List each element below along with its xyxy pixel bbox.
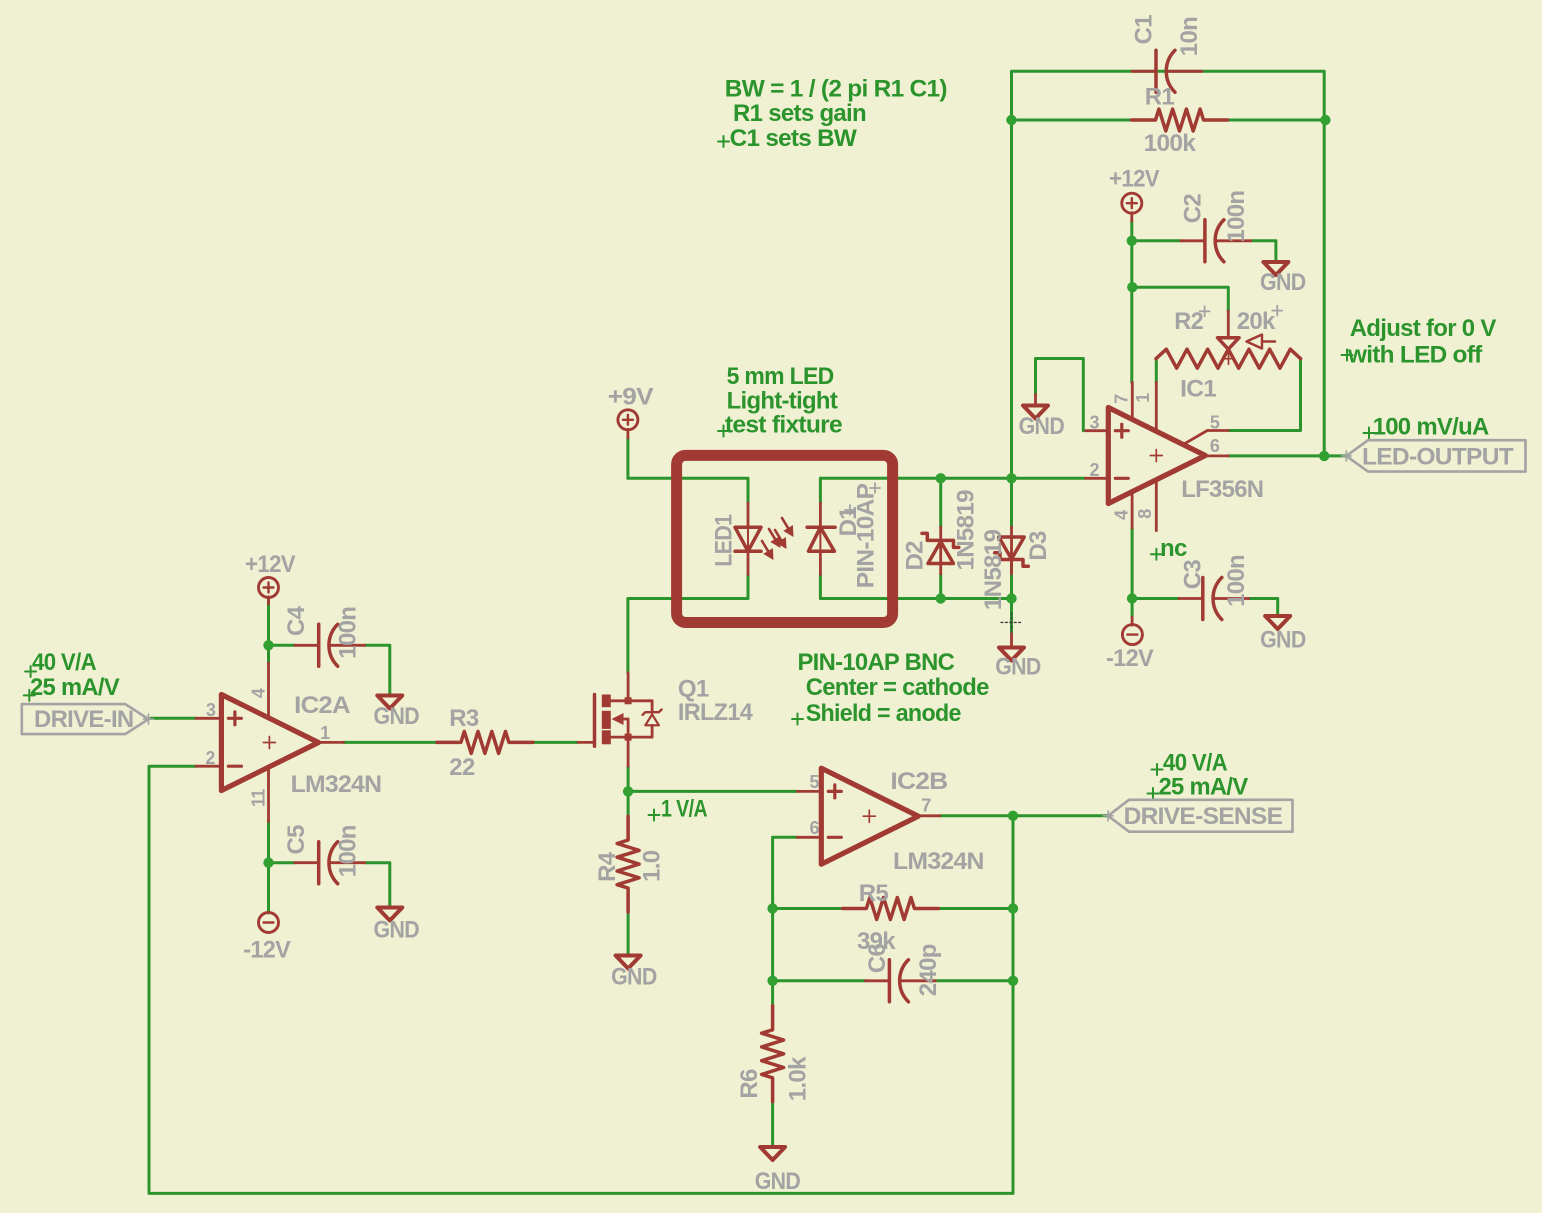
junction bbox=[767, 976, 777, 986]
junction bbox=[263, 640, 273, 650]
svg-text:+12V: +12V bbox=[1109, 165, 1160, 192]
svg-text:6: 6 bbox=[1210, 436, 1220, 456]
wire D2 top bbox=[939, 478, 942, 527]
wire C4 branch bbox=[269, 644, 295, 647]
wire R2 left to pin1 bbox=[1155, 359, 1158, 383]
op-amp IC1 bbox=[1108, 408, 1205, 504]
wire D3 gnd stub bbox=[1010, 599, 1013, 634]
svg-text:22: 22 bbox=[449, 754, 475, 781]
note origin cross bbox=[718, 136, 729, 147]
wire IC2B out bbox=[940, 814, 1108, 817]
capacitor C3 bbox=[1179, 597, 1203, 600]
ground bbox=[760, 1147, 785, 1160]
capacitor C6 bbox=[865, 979, 889, 982]
junction bbox=[263, 858, 273, 868]
svg-text:2: 2 bbox=[1089, 460, 1099, 480]
svg-text:R1: R1 bbox=[1145, 83, 1175, 110]
ground bbox=[616, 956, 641, 969]
wire IC2A pin2 feedback bbox=[149, 766, 1013, 1193]
transistor Q1 bbox=[593, 695, 597, 747]
svg-text:1N5819: 1N5819 bbox=[980, 529, 1007, 610]
svg-text:BW = 1 / (2 pi R1 C1): BW = 1 / (2 pi R1 C1) bbox=[725, 76, 947, 103]
flag DRIVE-SENSE bbox=[1108, 800, 1292, 832]
svg-text:C5: C5 bbox=[283, 825, 310, 855]
svg-text:1.0: 1.0 bbox=[639, 850, 666, 882]
wire C4 to GND bbox=[365, 645, 390, 695]
svg-text:2: 2 bbox=[205, 748, 215, 768]
wire R5 right bbox=[937, 907, 1013, 910]
svg-text:LED1: LED1 bbox=[710, 514, 737, 566]
svg-text:6: 6 bbox=[809, 818, 819, 838]
wire R1 row right bbox=[1228, 119, 1325, 122]
svg-text:Shield = anode: Shield = anode bbox=[806, 700, 961, 727]
wire D1 top bbox=[819, 478, 822, 503]
note origin cross bbox=[718, 426, 729, 437]
supply +9V bbox=[618, 410, 638, 430]
note origin cross bbox=[649, 810, 660, 821]
svg-text:-12V: -12V bbox=[243, 937, 291, 964]
wire LED cathode to Q1 drain bbox=[628, 575, 748, 673]
note origin cross bbox=[1151, 549, 1162, 560]
wire R6 to GND bbox=[771, 1102, 774, 1147]
wire C3 branch bbox=[1132, 597, 1179, 600]
svg-text:40 V/A: 40 V/A bbox=[32, 649, 96, 676]
ground bbox=[377, 696, 402, 709]
svg-text:3: 3 bbox=[1089, 413, 1099, 433]
D1 incident arrows bbox=[782, 518, 788, 528]
svg-text:Light-tight: Light-tight bbox=[727, 388, 838, 415]
resistor R4 bbox=[617, 816, 639, 912]
svg-text:5: 5 bbox=[809, 772, 819, 792]
wire +9V down bbox=[626, 438, 629, 478]
supply -12V bbox=[259, 913, 279, 933]
junction bbox=[1006, 473, 1016, 483]
svg-text:IC2A: IC2A bbox=[294, 692, 350, 719]
svg-text:GND: GND bbox=[374, 917, 420, 944]
wire C5 to GND bbox=[365, 863, 390, 908]
wire D3 bottom bbox=[1010, 558, 1013, 599]
svg-text:10n: 10n bbox=[1176, 17, 1203, 56]
supply -12V bbox=[1131, 617, 1134, 625]
junction bbox=[1127, 236, 1137, 246]
svg-text:100 mV/uA: 100 mV/uA bbox=[1373, 414, 1489, 441]
supply +12V bbox=[259, 578, 279, 598]
svg-text:7: 7 bbox=[921, 796, 931, 816]
LED1 emission arrows bbox=[769, 529, 775, 539]
capacitor C1 bbox=[1132, 70, 1156, 73]
wire D2 bottom bbox=[939, 574, 942, 599]
svg-text:D2: D2 bbox=[901, 541, 928, 571]
ground bbox=[1265, 616, 1290, 629]
note origin cross bbox=[1152, 764, 1163, 775]
wire R1 row left bbox=[1012, 119, 1132, 122]
wire D1 bottom bbox=[819, 575, 822, 599]
svg-text:C2: C2 bbox=[1179, 194, 1206, 224]
svg-text:3: 3 bbox=[206, 700, 216, 720]
svg-text:100n: 100n bbox=[335, 607, 362, 659]
svg-text:+9V: +9V bbox=[608, 384, 654, 411]
svg-text:5 mm LED: 5 mm LED bbox=[727, 363, 834, 390]
svg-text:LM324N: LM324N bbox=[291, 771, 382, 798]
svg-text:1N5819: 1N5819 bbox=[953, 490, 980, 571]
note origin cross bbox=[792, 714, 803, 725]
junction bbox=[936, 473, 946, 483]
svg-text:25 mA/V: 25 mA/V bbox=[30, 674, 120, 701]
svg-text:PIN-10AP BNC: PIN-10AP BNC bbox=[798, 649, 955, 676]
svg-text:100k: 100k bbox=[1144, 130, 1197, 157]
wire R2 right to pin5 bbox=[1228, 359, 1300, 431]
wire C3 to GND bbox=[1249, 599, 1278, 617]
diode D3 bbox=[1010, 527, 1013, 574]
svg-text:LED-OUTPUT: LED-OUTPUT bbox=[1362, 443, 1514, 470]
svg-text:C1 sets BW: C1 sets BW bbox=[730, 125, 857, 152]
resistor R5 bbox=[842, 898, 938, 920]
wire IC1 pin6 out bbox=[1228, 454, 1346, 457]
junction bbox=[623, 786, 633, 796]
svg-text:5: 5 bbox=[1210, 413, 1220, 433]
wire DRIVE-IN to pin3 bbox=[151, 717, 196, 720]
junction bbox=[1320, 115, 1330, 125]
op-amp IC2B bbox=[821, 768, 918, 864]
svg-text:GND: GND bbox=[1260, 626, 1306, 653]
svg-text:100n: 100n bbox=[1223, 191, 1250, 243]
ground bbox=[1034, 385, 1037, 395]
svg-text:1.0k: 1.0k bbox=[785, 1056, 812, 1101]
junction bbox=[1319, 451, 1329, 461]
LED LED1 bbox=[747, 503, 750, 527]
wire IC1 pin4 down bbox=[1131, 528, 1134, 617]
junction bbox=[767, 903, 777, 913]
svg-text:C6: C6 bbox=[864, 943, 891, 973]
wire C5 branch bbox=[269, 861, 295, 864]
junction bbox=[1127, 593, 1137, 603]
svg-text:7: 7 bbox=[1111, 394, 1131, 404]
potentiometer R2 bbox=[1156, 349, 1301, 368]
cursor crosshair bbox=[1001, 613, 1021, 631]
svg-text:R4: R4 bbox=[594, 851, 621, 882]
note origin cross bbox=[25, 666, 36, 677]
svg-text:4: 4 bbox=[248, 688, 268, 698]
svg-text:C4: C4 bbox=[283, 605, 310, 636]
svg-text:1: 1 bbox=[320, 723, 330, 743]
svg-text:GND: GND bbox=[374, 703, 420, 730]
svg-text:8: 8 bbox=[1135, 509, 1155, 519]
svg-text:1 V/A: 1 V/A bbox=[661, 796, 707, 823]
resistor R3 bbox=[437, 731, 533, 753]
svg-text:GND: GND bbox=[1260, 269, 1306, 296]
svg-text:PIN-10AP: PIN-10AP bbox=[853, 483, 880, 588]
LED test fixture box bbox=[677, 455, 893, 622]
junction bbox=[1006, 593, 1016, 603]
svg-text:GND: GND bbox=[1019, 413, 1065, 440]
svg-text:DRIVE-SENSE: DRIVE-SENSE bbox=[1124, 803, 1283, 830]
supply +12V bbox=[1122, 193, 1142, 213]
junction bbox=[1008, 903, 1018, 913]
wire top feedback rail bbox=[1012, 71, 1325, 478]
diode D2 bbox=[939, 527, 942, 574]
note origin cross bbox=[1364, 428, 1375, 439]
svg-text:Center = cathode: Center = cathode bbox=[806, 674, 989, 701]
photodiode D1 bbox=[819, 503, 822, 527]
ground bbox=[377, 908, 402, 921]
svg-text:4: 4 bbox=[1111, 510, 1131, 520]
svg-text:R2: R2 bbox=[1174, 308, 1203, 335]
op-amp IC2A bbox=[221, 695, 318, 791]
note origin cross bbox=[24, 690, 35, 701]
svg-text:240p: 240p bbox=[915, 944, 942, 996]
wire +12V left down bbox=[267, 597, 270, 663]
svg-text:100n: 100n bbox=[1223, 555, 1250, 607]
svg-text:R3: R3 bbox=[449, 705, 479, 732]
wire pin11 to -12V bbox=[267, 822, 270, 914]
ground bbox=[1010, 634, 1013, 648]
junction bbox=[1006, 115, 1016, 125]
wire IC2A out to R3 bbox=[344, 741, 438, 744]
capacitor C4 bbox=[295, 644, 319, 647]
svg-text:R5: R5 bbox=[859, 880, 889, 907]
svg-text:C1: C1 bbox=[1131, 15, 1158, 45]
wire C2 branch bbox=[1132, 239, 1181, 242]
svg-text:11: 11 bbox=[248, 789, 268, 807]
wire IC1 pin3 to GND bbox=[1036, 359, 1084, 431]
wire source to IC2B pin5 bbox=[628, 790, 797, 793]
wire box bottom row bbox=[820, 597, 1011, 600]
capacitor C2 bbox=[1181, 239, 1205, 242]
svg-text:20k: 20k bbox=[1237, 308, 1276, 335]
capacitor C5 bbox=[295, 861, 319, 864]
svg-text:GND: GND bbox=[611, 963, 657, 990]
svg-text:LM324N: LM324N bbox=[893, 848, 984, 875]
resistor R6 bbox=[762, 1006, 784, 1102]
junction bbox=[1127, 282, 1137, 292]
svg-text:LF356N: LF356N bbox=[1181, 476, 1263, 503]
svg-text:with LED off: with LED off bbox=[1347, 342, 1483, 369]
junction bbox=[1008, 976, 1018, 986]
wire R5 left bbox=[773, 907, 844, 910]
note origin cross bbox=[1148, 788, 1159, 799]
wire Q1 source node bbox=[627, 766, 630, 816]
note origin cross bbox=[1342, 350, 1353, 361]
junction bbox=[936, 593, 946, 603]
wire R4 to GND bbox=[627, 912, 630, 955]
wire IC1 pin2 row bbox=[820, 477, 1085, 480]
wire D3 top bbox=[1010, 478, 1013, 527]
svg-text:R1 sets gain: R1 sets gain bbox=[733, 100, 866, 127]
svg-text:IRLZ14: IRLZ14 bbox=[678, 699, 754, 726]
svg-text:IC2B: IC2B bbox=[890, 768, 947, 795]
svg-text:GND: GND bbox=[755, 1168, 801, 1195]
wire +12V to IC1 pin7 bbox=[1130, 221, 1133, 382]
svg-text:nc: nc bbox=[1160, 535, 1187, 562]
junction bbox=[1008, 811, 1018, 821]
svg-text:Adjust for 0 V: Adjust for 0 V bbox=[1350, 315, 1497, 342]
wire C2 to GND bbox=[1251, 241, 1276, 262]
wire R3 to Q1 gate bbox=[533, 741, 578, 744]
resistor R1 bbox=[1132, 109, 1228, 131]
wire IC2B pin6 loop bbox=[773, 837, 798, 1005]
svg-text:25 mA/V: 25 mA/V bbox=[1159, 774, 1249, 801]
wire LED anode bbox=[628, 478, 748, 503]
svg-text:DRIVE-IN: DRIVE-IN bbox=[34, 706, 134, 733]
wire C6 left bbox=[773, 979, 866, 982]
svg-text:1: 1 bbox=[1133, 393, 1153, 403]
svg-text:R6: R6 bbox=[736, 1069, 763, 1099]
flag LED-OUTPUT bbox=[1346, 440, 1525, 471]
svg-text:40 V/A: 40 V/A bbox=[1163, 750, 1227, 777]
wire R2 wiper feed bbox=[1132, 287, 1228, 311]
wire C6 right bbox=[935, 979, 1013, 982]
svg-text:-12V: -12V bbox=[1106, 645, 1154, 672]
svg-text:test fixture: test fixture bbox=[725, 412, 842, 439]
svg-text:D3: D3 bbox=[1025, 531, 1052, 561]
svg-text:GND: GND bbox=[995, 653, 1041, 680]
svg-text:C3: C3 bbox=[1179, 560, 1206, 590]
flag DRIVE-IN bbox=[22, 704, 149, 734]
svg-text:+12V: +12V bbox=[245, 551, 296, 578]
svg-text:100n: 100n bbox=[335, 825, 362, 877]
svg-text:IC1: IC1 bbox=[1180, 376, 1216, 403]
ground bbox=[1263, 262, 1288, 275]
